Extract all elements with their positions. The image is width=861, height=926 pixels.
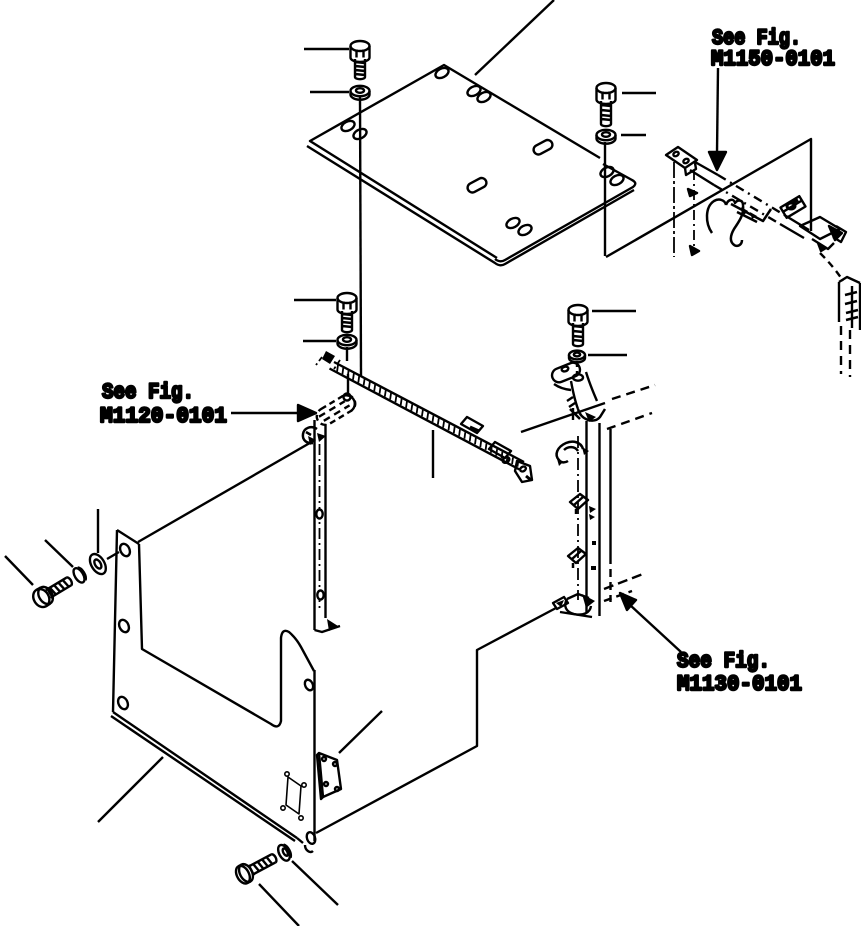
leader washer top-left bbox=[310, 91, 349, 93]
line strip end to post bbox=[521, 403, 605, 432]
post top bracket bbox=[550, 361, 605, 422]
gasket outline bbox=[281, 772, 306, 820]
washer middle-right bbox=[569, 351, 585, 363]
strip end bracket bbox=[515, 461, 532, 482]
M1150 bracket end plate bbox=[666, 147, 697, 175]
M1150 mid clip bbox=[780, 196, 805, 218]
bolt top-right bbox=[597, 83, 616, 126]
cover plate bbox=[317, 753, 341, 799]
side panel bbox=[111, 530, 315, 843]
bolt middle-right bbox=[569, 305, 588, 346]
leader bolt top-left bbox=[304, 48, 349, 50]
svg-text:M1130-0101: M1130-0101 bbox=[677, 672, 802, 697]
washer middle-left bbox=[338, 335, 357, 349]
leader panel bottom edge bbox=[98, 757, 163, 822]
plate slot (upper right) bbox=[532, 138, 554, 156]
leader bottom washer bbox=[292, 861, 338, 905]
plate hole pair (bottom corner) bbox=[505, 216, 521, 230]
S hole bottom right bbox=[305, 831, 317, 852]
plate hole pair (right corner) bbox=[599, 165, 615, 179]
post foot bbox=[553, 594, 595, 617]
M1150 drop centerline 1 bbox=[673, 162, 675, 257]
plate hole pair (upper middle) bbox=[466, 84, 482, 98]
bolt middle-left bbox=[338, 293, 357, 332]
post small marks bbox=[589, 506, 596, 570]
M1120 stadium bracket (dashed) bbox=[314, 392, 359, 428]
M1120 bracket hole bbox=[344, 394, 351, 401]
dashed pair lower right of post bbox=[604, 574, 643, 589]
leader washer middle-left bbox=[303, 340, 336, 342]
angled support strip bbox=[330, 362, 525, 470]
vertical bar bbox=[315, 420, 327, 630]
M1150 end bracket bbox=[800, 217, 846, 251]
frame triangle ghost bbox=[606, 139, 811, 257]
tick mark upper bbox=[688, 189, 697, 196]
M1130 post verticals bbox=[578, 421, 611, 616]
panel hole right flange bbox=[303, 678, 315, 691]
leader bolt middle-left bbox=[294, 299, 336, 301]
leader left washer vertical bbox=[97, 509, 99, 553]
post clamp 1 (C-hook) bbox=[557, 442, 589, 466]
M1150 drop centerline 2 bbox=[693, 170, 695, 252]
tick mark lower bbox=[690, 246, 699, 255]
M1150 strip bottom edge bbox=[690, 170, 804, 238]
left bolt assembly bbox=[29, 551, 109, 611]
strip tab 2 bbox=[489, 442, 511, 464]
arrow M1120 bbox=[231, 412, 298, 414]
leader washer top-right bbox=[621, 134, 646, 136]
svg-text:See Fig.: See Fig. bbox=[102, 380, 194, 405]
arrow M1130 bbox=[620, 593, 636, 610]
dashed curve to right channel bbox=[820, 253, 843, 281]
svg-text:M1150-0101: M1150-0101 bbox=[711, 47, 835, 72]
M1150 C-hook clip bbox=[707, 200, 771, 246]
plate slot (center) bbox=[466, 176, 488, 194]
dashed pair upper right of post bbox=[612, 385, 655, 399]
leader bottom bolt bbox=[259, 884, 299, 926]
svg-text:M1120-0101: M1120-0101 bbox=[100, 404, 227, 429]
svg-text:See Fig.: See Fig. bbox=[677, 649, 770, 674]
post clamp 3 bbox=[568, 548, 586, 568]
centerline middle-left bolt bbox=[347, 347, 348, 396]
top plate bbox=[307, 65, 635, 265]
M1150 strip top edge bbox=[695, 162, 809, 230]
bolt top-left bbox=[351, 41, 370, 79]
centerline top-left bolt bbox=[360, 97, 361, 376]
plate hole (top corner) bbox=[434, 66, 450, 80]
post clamp 2 bbox=[570, 494, 588, 514]
strip left end wedge bbox=[322, 351, 335, 364]
washer top-right bbox=[597, 130, 616, 144]
centerline top-right bolt bbox=[604, 142, 606, 256]
leader cover plate bbox=[339, 711, 382, 753]
centerline middle-right (dashed) bbox=[576, 361, 578, 374]
ghost outline bottom right bbox=[316, 608, 556, 833]
vertical leader near strip bbox=[432, 430, 434, 478]
panel top edge ghost bbox=[138, 440, 315, 542]
plate hole pair (left corner) bbox=[340, 119, 356, 133]
leader line to top plate bbox=[475, 0, 554, 75]
strip tab 1 bbox=[461, 417, 483, 433]
arrow M1150 bbox=[717, 68, 718, 153]
line washer2 to panel hole bbox=[107, 552, 119, 559]
leader left bolt 2 bbox=[45, 540, 73, 567]
right channel piece bbox=[839, 277, 860, 377]
leader left bolt 1 bbox=[5, 556, 33, 585]
panel holes left flange bbox=[118, 542, 132, 558]
leader bolt top-right bbox=[622, 92, 656, 94]
leader washer middle-right bbox=[588, 354, 627, 356]
bottom bolt assembly bbox=[233, 842, 294, 886]
leader bolt middle-right bbox=[592, 310, 636, 312]
C-clip below bracket bbox=[303, 427, 317, 445]
washer top-left bbox=[351, 86, 370, 100]
vertical bar foot bbox=[315, 619, 341, 632]
